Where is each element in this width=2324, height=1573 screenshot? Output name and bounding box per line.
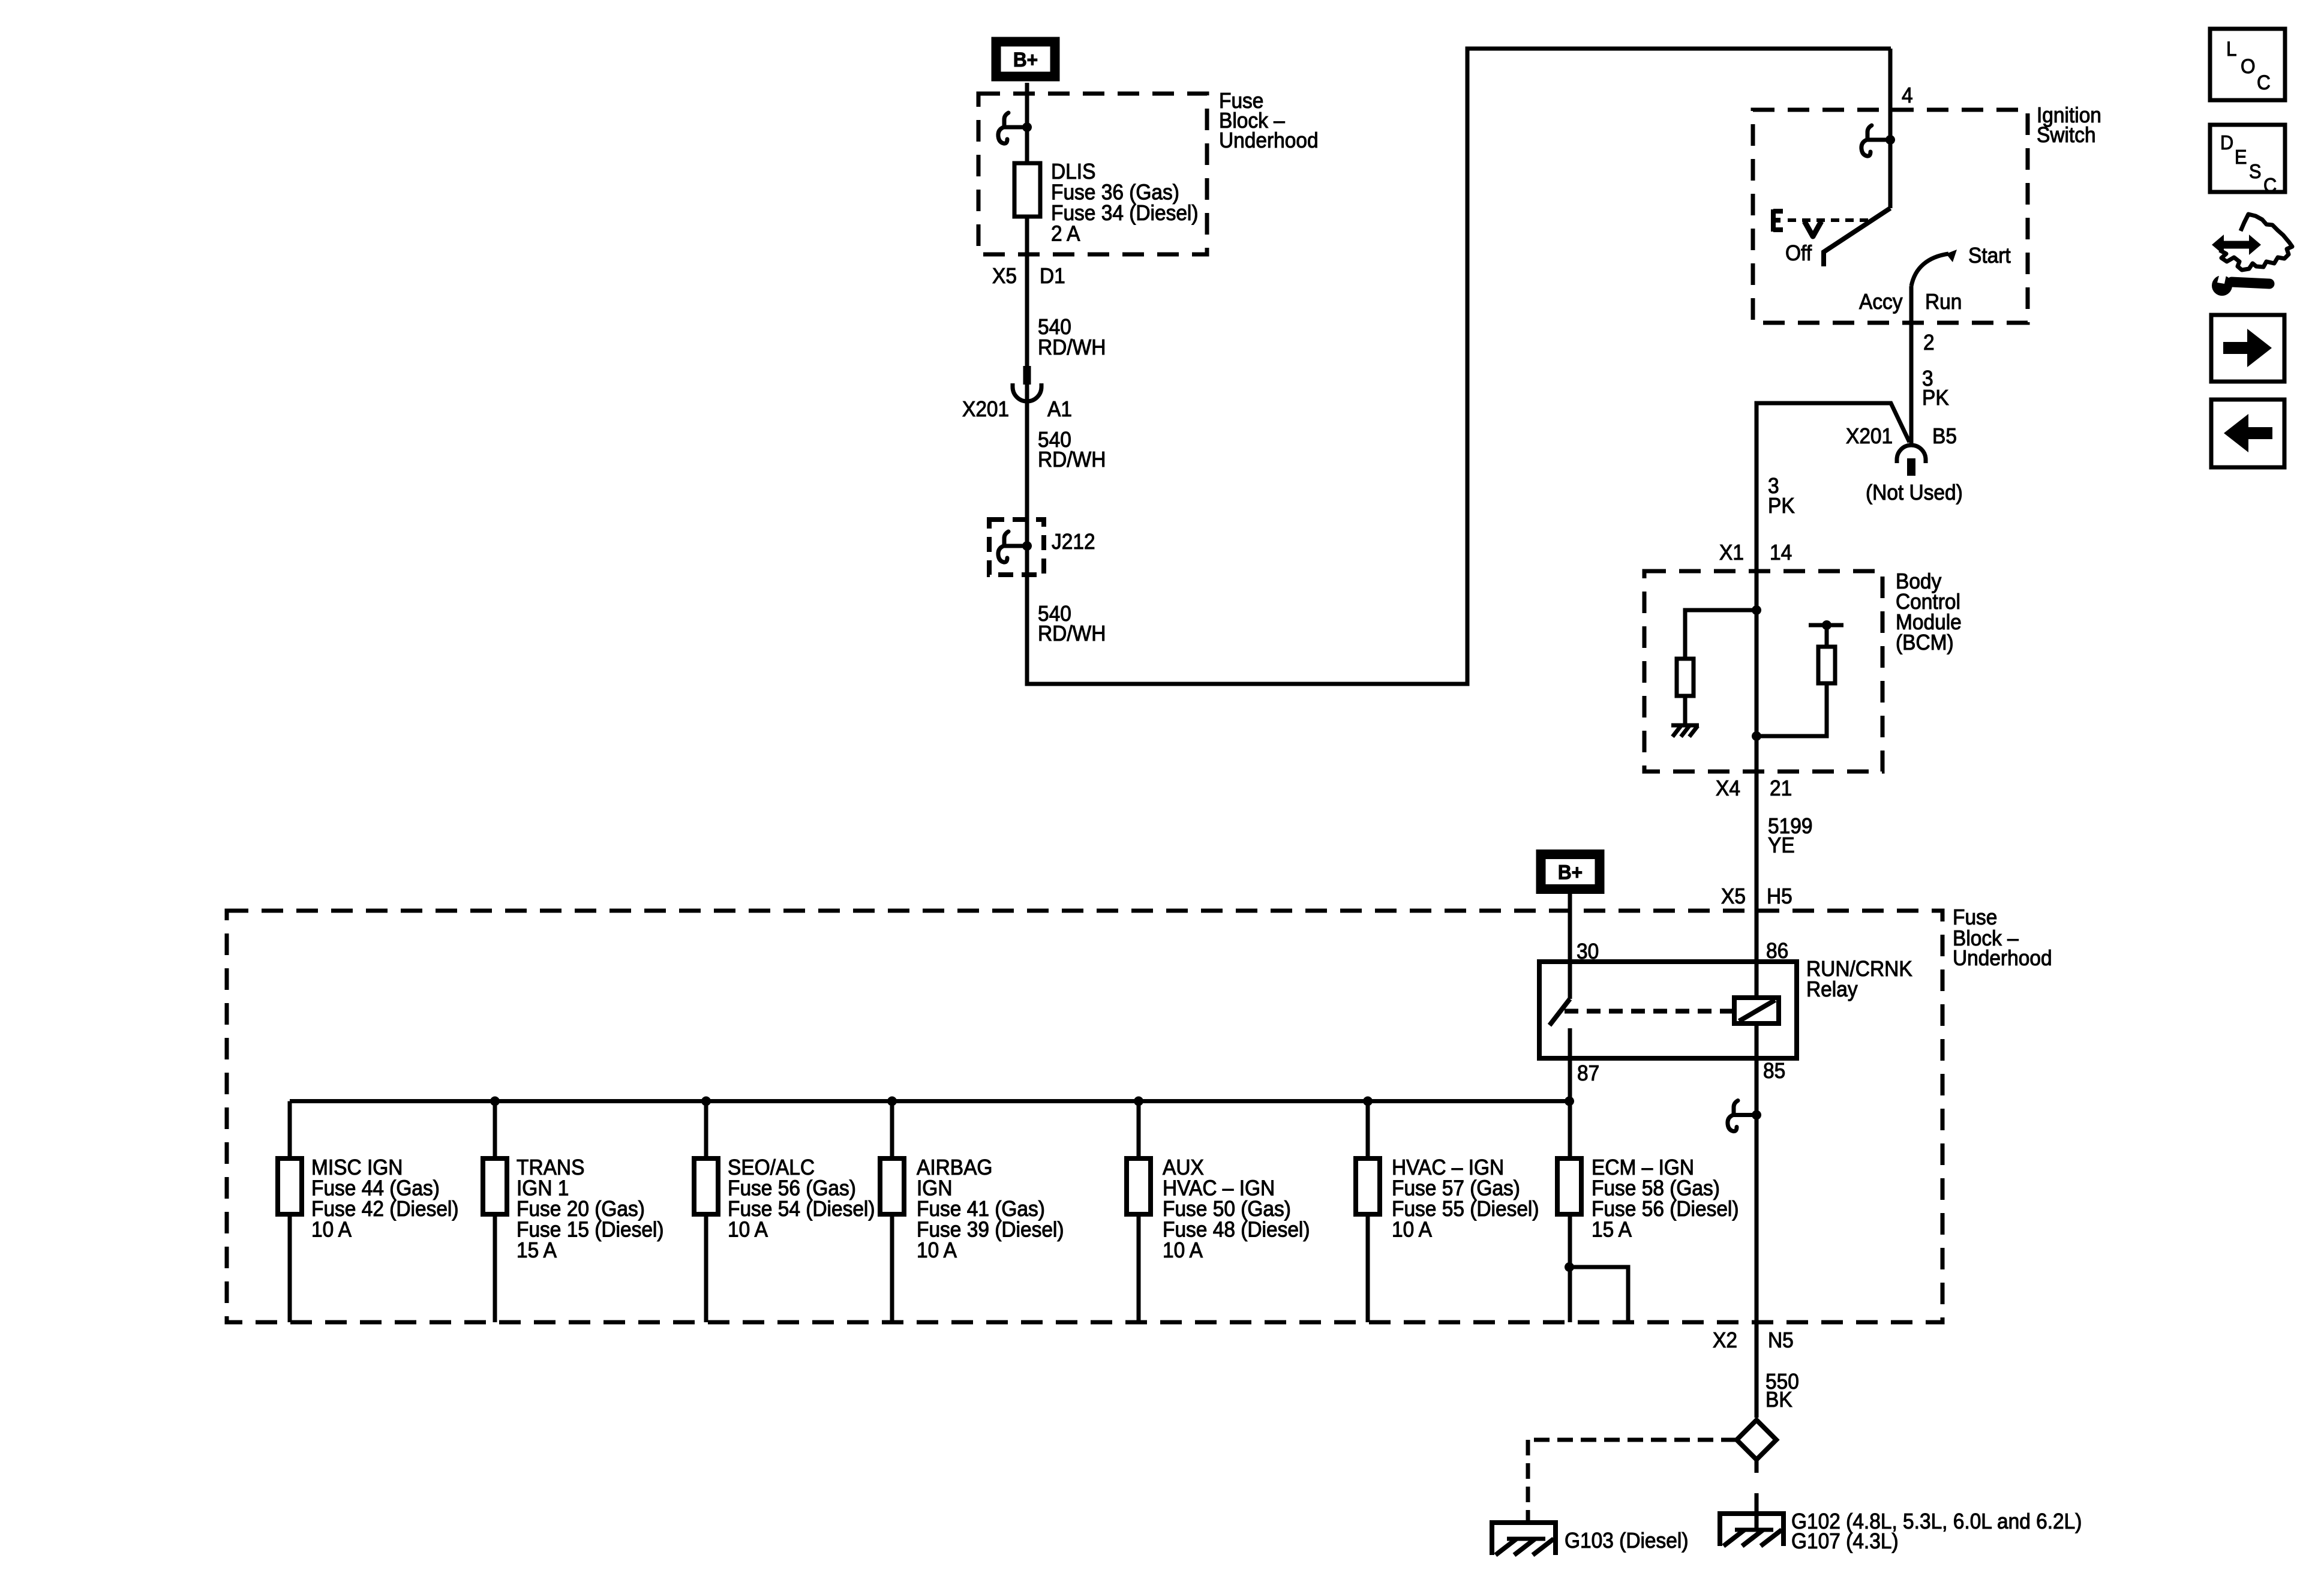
svg-text:RD/WH: RD/WH <box>1038 622 1106 646</box>
svg-text:PK: PK <box>1768 494 1795 518</box>
svg-text:Fuse 42 (Diesel): Fuse 42 (Diesel) <box>311 1197 459 1221</box>
svg-text:30: 30 <box>1577 940 1599 963</box>
svg-text:14: 14 <box>1770 541 1792 565</box>
svg-text:(BCM): (BCM) <box>1896 631 1954 655</box>
svg-text:HVAC – IGN: HVAC – IGN <box>1392 1156 1504 1179</box>
svg-text:87: 87 <box>1577 1062 1599 1085</box>
svg-text:Fuse 39 (Diesel): Fuse 39 (Diesel) <box>917 1218 1064 1241</box>
svg-text:Fuse 56 (Diesel): Fuse 56 (Diesel) <box>1592 1197 1739 1221</box>
svg-text:Fuse 57 (Gas): Fuse 57 (Gas) <box>1392 1176 1520 1200</box>
svg-text:IGN: IGN <box>917 1176 953 1200</box>
svg-text:BK: BK <box>1765 1388 1792 1412</box>
svg-text:Underhood: Underhood <box>1219 129 1319 152</box>
svg-text:G103 (Diesel): G103 (Diesel) <box>1565 1529 1688 1553</box>
svg-text:Fuse 55 (Diesel): Fuse 55 (Diesel) <box>1392 1197 1539 1221</box>
svg-text:N5: N5 <box>1768 1329 1794 1352</box>
svg-text:B5: B5 <box>1932 425 1957 448</box>
svg-text:S: S <box>2249 160 2261 182</box>
svg-text:Underhood: Underhood <box>1953 947 2052 970</box>
svg-text:Run: Run <box>1925 290 1962 314</box>
svg-text:X201: X201 <box>1846 425 1893 448</box>
svg-text:85: 85 <box>1763 1059 1785 1083</box>
svg-text:X201: X201 <box>962 398 1009 421</box>
svg-text:DLIS: DLIS <box>1051 160 1095 184</box>
svg-text:86: 86 <box>1766 939 1788 963</box>
svg-text:15 A: 15 A <box>1592 1218 1632 1241</box>
svg-text:YE: YE <box>1768 834 1795 857</box>
svg-text:X4: X4 <box>1716 777 1740 800</box>
svg-text:10 A: 10 A <box>1392 1218 1433 1241</box>
svg-text:L: L <box>2226 37 2237 60</box>
svg-text:C: C <box>2257 71 2271 94</box>
svg-text:21: 21 <box>1770 777 1792 800</box>
svg-text:4: 4 <box>1902 84 1913 107</box>
svg-text:RD/WH: RD/WH <box>1038 448 1106 472</box>
svg-text:X5: X5 <box>992 265 1017 288</box>
svg-text:E: E <box>2235 146 2247 168</box>
svg-text:Fuse: Fuse <box>1953 906 1997 929</box>
svg-text:10 A: 10 A <box>728 1218 768 1241</box>
svg-text:SEO/ALC: SEO/ALC <box>728 1156 815 1179</box>
svg-text:Fuse 44 (Gas): Fuse 44 (Gas) <box>311 1176 440 1200</box>
svg-text:Fuse 41 (Gas): Fuse 41 (Gas) <box>917 1197 1045 1221</box>
svg-text:Accy: Accy <box>1859 290 1903 314</box>
svg-text:10 A: 10 A <box>917 1239 957 1262</box>
svg-text:Fuse 20 (Gas): Fuse 20 (Gas) <box>517 1197 645 1221</box>
svg-text:B+: B+ <box>1558 860 1583 883</box>
svg-text:X5: X5 <box>1721 885 1746 908</box>
svg-text:10 A: 10 A <box>311 1218 352 1241</box>
svg-text:Off: Off <box>1785 242 1812 265</box>
svg-text:Start: Start <box>1968 244 2011 268</box>
svg-text:15 A: 15 A <box>517 1239 557 1262</box>
svg-text:Fuse 58 (Gas): Fuse 58 (Gas) <box>1592 1176 1720 1200</box>
svg-text:A1: A1 <box>1047 398 1072 421</box>
svg-text:Fuse 34 (Diesel): Fuse 34 (Diesel) <box>1051 202 1199 225</box>
svg-text:Fuse 48 (Diesel): Fuse 48 (Diesel) <box>1163 1218 1310 1241</box>
svg-text:Fuse 56 (Gas): Fuse 56 (Gas) <box>728 1176 856 1200</box>
svg-text:Fuse 15 (Diesel): Fuse 15 (Diesel) <box>517 1218 664 1241</box>
svg-text:IGN 1: IGN 1 <box>517 1176 569 1200</box>
svg-text:H5: H5 <box>1767 885 1792 908</box>
svg-text:Fuse 54 (Diesel): Fuse 54 (Diesel) <box>728 1197 875 1221</box>
svg-text:X1: X1 <box>1719 541 1744 565</box>
svg-text:C: C <box>2263 174 2277 196</box>
svg-text:(Not Used): (Not Used) <box>1866 481 1963 505</box>
svg-text:Relay: Relay <box>1806 978 1858 1001</box>
svg-text:O: O <box>2241 55 2256 77</box>
svg-text:RD/WH: RD/WH <box>1038 336 1106 359</box>
svg-text:PK: PK <box>1922 386 1949 410</box>
svg-text:2 A: 2 A <box>1051 222 1080 245</box>
svg-text:ECM – IGN: ECM – IGN <box>1592 1156 1694 1179</box>
svg-text:HVAC – IGN: HVAC – IGN <box>1163 1176 1275 1200</box>
svg-text:J212: J212 <box>1052 530 1095 554</box>
svg-text:2: 2 <box>1923 331 1935 355</box>
svg-text:Switch: Switch <box>2037 124 2096 147</box>
svg-text:AIRBAG: AIRBAG <box>917 1156 992 1179</box>
svg-text:G107 (4.3L): G107 (4.3L) <box>1791 1530 1899 1553</box>
svg-text:D: D <box>2220 131 2233 154</box>
svg-text:Fuse 36 (Gas): Fuse 36 (Gas) <box>1051 181 1179 204</box>
svg-text:AUX: AUX <box>1163 1156 1204 1179</box>
svg-text:B+: B+ <box>1013 48 1038 71</box>
svg-text:TRANS: TRANS <box>517 1156 584 1179</box>
svg-text:Fuse 50 (Gas): Fuse 50 (Gas) <box>1163 1197 1291 1221</box>
svg-text:D1: D1 <box>1040 265 1065 288</box>
svg-text:MISC IGN: MISC IGN <box>311 1156 403 1179</box>
svg-text:10 A: 10 A <box>1163 1239 1203 1262</box>
svg-text:X2: X2 <box>1713 1329 1737 1352</box>
